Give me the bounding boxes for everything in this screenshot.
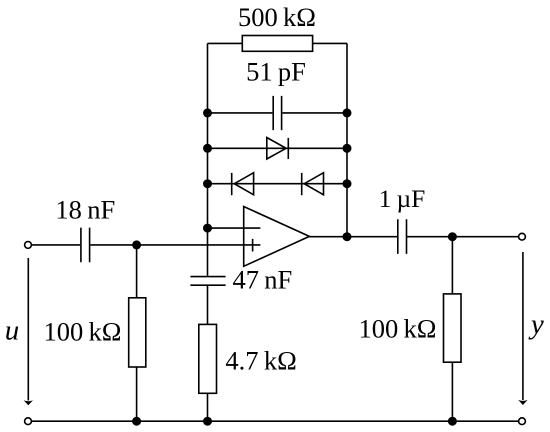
svg-text:u: u: [5, 315, 20, 347]
svg-text:47 nF: 47 nF: [233, 265, 293, 295]
svg-text:4.7 kΩ: 4.7 kΩ: [225, 346, 296, 376]
svg-text:500 kΩ: 500 kΩ: [238, 2, 316, 32]
svg-text:1 µF: 1 µF: [379, 184, 426, 213]
svg-text:100 kΩ: 100 kΩ: [44, 316, 122, 346]
svg-text:18 nF: 18 nF: [55, 194, 115, 224]
svg-text:100 kΩ: 100 kΩ: [359, 314, 437, 344]
svg-text:y: y: [528, 309, 544, 341]
svg-text:51 pF: 51 pF: [246, 57, 306, 87]
